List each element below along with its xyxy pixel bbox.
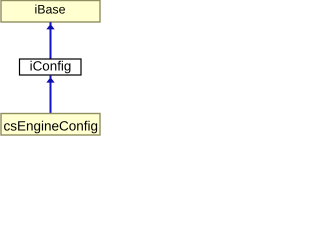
class box iConfig (20, 59, 82, 75)
class box csEngineConfig (1, 114, 100, 136)
background (0, 0, 101, 136)
wire: inheritance arrow shaft iConfig -> iBase (50, 22, 52, 59)
svg-text:iBase: iBase (35, 3, 66, 17)
svg-text:csEngineConfig: csEngineConfig (3, 119, 98, 134)
arrowhead to iConfig (46, 77, 54, 82)
svg-text:iConfig: iConfig (30, 58, 72, 73)
wire: inheritance arrow shaft csEngineConfig -> iConfig (50, 76, 52, 113)
class box iBase (1, 1, 100, 23)
arrowhead to iBase (46, 24, 54, 29)
